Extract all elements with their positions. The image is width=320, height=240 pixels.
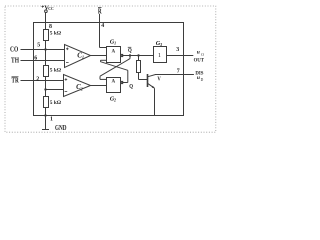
svg-text:1: 1: [114, 41, 116, 46]
svg-text:5 kΩ: 5 kΩ: [50, 67, 61, 73]
svg-text:5 kΩ: 5 kΩ: [50, 100, 61, 106]
svg-text:3: 3: [159, 42, 162, 47]
svg-text:GND: GND: [55, 124, 67, 132]
svg-text:CO: CO: [10, 46, 19, 54]
svg-text:1: 1: [50, 117, 53, 123]
svg-text:8: 8: [49, 24, 52, 30]
svg-text:7: 7: [177, 68, 180, 74]
svg-text:TR: TR: [12, 77, 20, 85]
svg-text:5: 5: [37, 42, 40, 48]
svg-text:6: 6: [34, 55, 37, 61]
svg-text:3: 3: [176, 47, 179, 53]
svg-text:Q: Q: [129, 83, 133, 90]
svg-text:V: V: [157, 75, 161, 82]
svg-text:1: 1: [82, 55, 84, 60]
svg-text:2: 2: [36, 76, 39, 82]
svg-text:D: D: [201, 78, 204, 82]
svg-text:2: 2: [113, 98, 116, 103]
svg-text:A: A: [112, 50, 116, 55]
svg-text:OUT: OUT: [194, 57, 205, 63]
svg-text:u: u: [197, 50, 200, 56]
svg-text:O: O: [201, 53, 204, 57]
svg-text:4: 4: [101, 23, 104, 29]
svg-text:CC: CC: [48, 7, 54, 11]
svg-text:R: R: [98, 7, 102, 16]
svg-text:Q: Q: [128, 47, 132, 54]
svg-text:A: A: [112, 79, 116, 84]
svg-text:u: u: [197, 75, 200, 81]
svg-text:TH: TH: [11, 57, 19, 65]
svg-text:1: 1: [158, 53, 161, 59]
svg-text:2: 2: [80, 87, 83, 92]
svg-text:5 kΩ: 5 kΩ: [50, 30, 61, 36]
